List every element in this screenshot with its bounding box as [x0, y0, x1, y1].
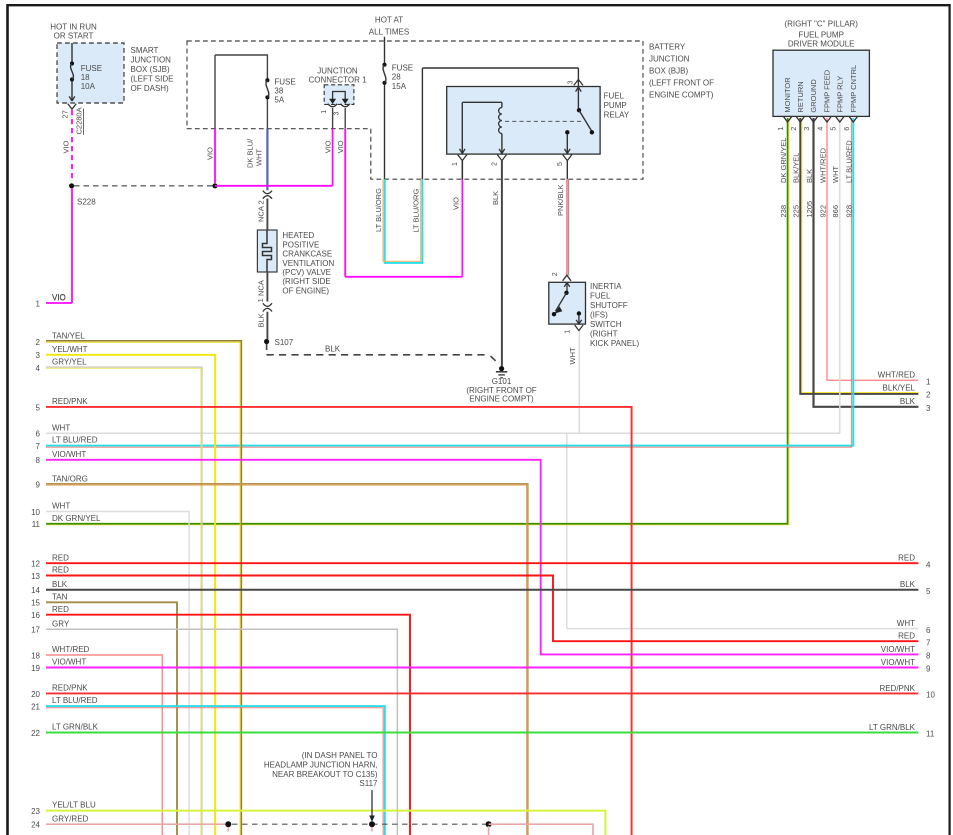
svg-text:BLK: BLK	[805, 169, 814, 183]
svg-text:YEL/LT BLU: YEL/LT BLU	[52, 801, 96, 810]
svg-text:10: 10	[926, 691, 935, 700]
svg-text:VIO/WHT: VIO/WHT	[881, 645, 915, 654]
svg-text:LT BLU/ORG: LT BLU/ORG	[374, 188, 383, 232]
svg-text:1: 1	[452, 162, 459, 166]
svg-text:15A: 15A	[392, 82, 407, 91]
svg-text:BLK: BLK	[900, 397, 916, 406]
svg-text:BLK/YEL: BLK/YEL	[792, 153, 801, 183]
svg-text:12: 12	[31, 560, 40, 569]
svg-text:5: 5	[926, 587, 931, 596]
svg-text:LT BLU/RED: LT BLU/RED	[52, 436, 98, 445]
svg-text:3: 3	[36, 351, 41, 360]
svg-text:1: 1	[36, 299, 41, 308]
svg-text:ENGINE COMPT): ENGINE COMPT)	[469, 395, 534, 404]
svg-text:1: 1	[926, 378, 931, 387]
svg-text:3: 3	[334, 112, 341, 116]
svg-text:VIO: VIO	[336, 140, 345, 153]
svg-text:LT BLU/RED: LT BLU/RED	[52, 696, 98, 705]
svg-text:BOX (SJB): BOX (SJB)	[131, 65, 170, 74]
svg-text:WHT/RED: WHT/RED	[52, 645, 90, 654]
svg-text:TAN: TAN	[52, 592, 68, 601]
svg-text:6: 6	[844, 127, 851, 131]
svg-text:FPMP RLY: FPMP RLY	[835, 76, 844, 113]
svg-text:6: 6	[36, 430, 41, 439]
svg-text:WHT: WHT	[897, 619, 915, 628]
svg-text:VIO: VIO	[452, 197, 461, 210]
svg-text:3: 3	[926, 404, 931, 413]
svg-text:(RIGHT FRONT OF: (RIGHT FRONT OF	[466, 386, 536, 395]
svg-text:238: 238	[779, 205, 788, 218]
svg-text:(RIGHT: (RIGHT	[590, 330, 618, 339]
svg-text:5: 5	[830, 127, 837, 131]
svg-text:SMART: SMART	[131, 46, 159, 55]
svg-text:POSITIVE: POSITIVE	[282, 240, 319, 249]
svg-text:PNK/BLK: PNK/BLK	[556, 184, 565, 216]
svg-text:(RIGHT "C" PILLAR): (RIGHT "C" PILLAR)	[784, 19, 858, 28]
svg-text:WHT: WHT	[831, 166, 840, 183]
svg-text:BLK: BLK	[325, 345, 341, 354]
svg-text:YEL/WHT: YEL/WHT	[52, 345, 88, 354]
svg-text:INERTIA: INERTIA	[590, 282, 622, 291]
svg-text:1: 1	[778, 127, 785, 131]
svg-text:27: 27	[61, 110, 70, 118]
svg-text:VIO/WHT: VIO/WHT	[881, 658, 915, 667]
svg-text:225: 225	[792, 205, 801, 218]
svg-text:OF ENGINE): OF ENGINE)	[282, 286, 329, 295]
svg-text:1: 1	[564, 330, 571, 334]
svg-text:HEADLAMP JUNCTION HARN,: HEADLAMP JUNCTION HARN,	[264, 761, 378, 770]
svg-text:FUEL: FUEL	[604, 92, 625, 101]
svg-text:DK BLU/: DK BLU/	[246, 138, 255, 168]
svg-text:5A: 5A	[274, 96, 284, 105]
svg-text:DRIVER MODULE: DRIVER MODULE	[788, 39, 855, 48]
svg-text:(RIGHT SIDE: (RIGHT SIDE	[282, 277, 330, 286]
svg-text:WHT: WHT	[568, 347, 577, 364]
svg-text:FUSE: FUSE	[274, 77, 295, 86]
svg-text:4: 4	[818, 127, 825, 131]
svg-text:BLK/YEL: BLK/YEL	[883, 384, 916, 393]
svg-text:OF DASH): OF DASH)	[131, 84, 170, 93]
svg-text:2: 2	[926, 390, 931, 399]
svg-text:NCA: NCA	[257, 280, 266, 296]
svg-text:CONNECTOR 1: CONNECTOR 1	[308, 76, 367, 85]
svg-text:RETURN: RETURN	[796, 81, 805, 112]
svg-text:5: 5	[557, 162, 564, 166]
svg-text:FPMP CNTRL: FPMP CNTRL	[849, 65, 858, 113]
svg-text:38: 38	[274, 87, 283, 96]
svg-text:8: 8	[36, 456, 41, 465]
svg-text:BOX (BJB): BOX (BJB)	[649, 66, 688, 75]
svg-text:FPMP FEED: FPMP FEED	[823, 69, 832, 112]
svg-text:5: 5	[36, 403, 41, 412]
svg-text:922: 922	[818, 205, 827, 218]
svg-text:(LEFT SIDE: (LEFT SIDE	[131, 74, 174, 83]
svg-text:3: 3	[804, 127, 811, 131]
svg-text:HEATED: HEATED	[282, 231, 314, 240]
svg-text:NEAR BREAKOUT TO C135): NEAR BREAKOUT TO C135)	[272, 770, 378, 779]
svg-text:JUNCTION: JUNCTION	[131, 55, 172, 64]
svg-text:GROUND: GROUND	[809, 79, 818, 113]
svg-text:11: 11	[926, 730, 935, 739]
svg-text:S228: S228	[77, 197, 96, 206]
svg-text:GRY/YEL: GRY/YEL	[52, 358, 87, 367]
svg-text:13: 13	[31, 572, 40, 581]
svg-text:1: 1	[258, 298, 265, 302]
svg-text:VIO/WHT: VIO/WHT	[52, 450, 86, 459]
svg-text:6: 6	[926, 626, 931, 635]
svg-text:7: 7	[36, 442, 41, 451]
svg-text:2: 2	[552, 272, 559, 276]
svg-text:24: 24	[31, 821, 40, 830]
svg-text:LT BLU/ORG: LT BLU/ORG	[412, 189, 421, 233]
svg-text:RED: RED	[898, 554, 915, 563]
svg-text:VIO/WHT: VIO/WHT	[52, 658, 86, 667]
svg-text:22: 22	[31, 729, 40, 738]
svg-text:WHT/RED: WHT/RED	[818, 147, 827, 183]
svg-text:23: 23	[31, 807, 40, 816]
svg-text:10: 10	[31, 508, 40, 517]
svg-text:4: 4	[926, 560, 931, 569]
svg-text:2: 2	[791, 127, 798, 131]
svg-text:RED/PNK: RED/PNK	[52, 684, 88, 693]
svg-text:VENTILATION: VENTILATION	[282, 259, 334, 268]
svg-text:9: 9	[926, 665, 931, 674]
svg-text:FUSE: FUSE	[392, 64, 413, 73]
svg-text:LT GRN/BLK: LT GRN/BLK	[869, 723, 916, 732]
svg-text:OR START: OR START	[54, 32, 94, 41]
svg-text:(IN DASH PANEL TO: (IN DASH PANEL TO	[302, 751, 378, 760]
svg-text:28: 28	[392, 73, 401, 82]
svg-text:CRANKCASE: CRANKCASE	[282, 250, 332, 259]
svg-text:LT GRN/BLK: LT GRN/BLK	[52, 723, 99, 732]
svg-text:BLK: BLK	[52, 580, 68, 589]
svg-text:928: 928	[845, 205, 854, 218]
svg-text:2: 2	[491, 162, 498, 166]
svg-text:16: 16	[31, 611, 40, 620]
svg-text:BLK: BLK	[257, 313, 266, 327]
svg-text:18: 18	[31, 651, 40, 660]
svg-text:11: 11	[32, 520, 41, 529]
svg-text:NCA 2: NCA 2	[257, 200, 266, 222]
svg-text:SWITCH: SWITCH	[590, 320, 622, 329]
svg-text:GRY/RED: GRY/RED	[52, 814, 89, 823]
svg-text:19: 19	[31, 664, 40, 673]
svg-text:BATTERY: BATTERY	[649, 42, 686, 51]
svg-text:FUEL PUMP: FUEL PUMP	[798, 30, 844, 39]
svg-text:RELAY: RELAY	[604, 111, 630, 120]
svg-text:10A: 10A	[81, 82, 96, 91]
svg-text:DK GRN/YEL: DK GRN/YEL	[779, 138, 788, 183]
svg-text:PUMP: PUMP	[604, 101, 627, 110]
svg-text:TAN/YEL: TAN/YEL	[52, 332, 85, 341]
svg-text:RED/PNK: RED/PNK	[52, 397, 88, 406]
svg-text:WHT/RED: WHT/RED	[878, 371, 916, 380]
svg-text:RED: RED	[898, 632, 915, 641]
svg-text:4: 4	[36, 364, 41, 373]
svg-text:8: 8	[926, 652, 931, 661]
svg-text:FUEL: FUEL	[590, 292, 611, 301]
svg-text:HOT IN RUN: HOT IN RUN	[50, 23, 97, 32]
svg-text:VIO: VIO	[206, 147, 215, 160]
svg-text:BLK: BLK	[491, 191, 500, 205]
svg-text:HOT AT: HOT AT	[375, 16, 403, 25]
svg-text:KICK PANEL): KICK PANEL)	[590, 339, 640, 348]
svg-text:(LEFT FRONT OF: (LEFT FRONT OF	[649, 78, 714, 87]
svg-text:MONITOR: MONITOR	[783, 77, 792, 113]
svg-text:(IFS): (IFS)	[590, 311, 608, 320]
svg-text:WHT: WHT	[52, 502, 70, 511]
svg-text:FUSE: FUSE	[81, 64, 102, 73]
svg-text:G101: G101	[492, 377, 512, 386]
svg-text:JUNCTION: JUNCTION	[649, 54, 690, 63]
svg-text:S107: S107	[275, 338, 294, 347]
svg-text:14: 14	[31, 586, 40, 595]
svg-text:S117: S117	[359, 779, 378, 788]
svg-text:3: 3	[568, 81, 575, 85]
svg-text:LT BLU/RED: LT BLU/RED	[845, 140, 854, 183]
svg-text:VIO: VIO	[52, 293, 66, 302]
svg-text:BLK: BLK	[900, 580, 916, 589]
svg-text:15: 15	[31, 599, 40, 608]
svg-text:18: 18	[81, 73, 90, 82]
svg-text:SHUTOFF: SHUTOFF	[590, 301, 628, 310]
svg-text:JUNCTION: JUNCTION	[317, 66, 358, 75]
svg-text:VIO: VIO	[62, 140, 71, 153]
svg-text:RED: RED	[52, 553, 69, 562]
svg-text:9: 9	[36, 481, 41, 490]
svg-text:C2280A: C2280A	[75, 107, 84, 134]
svg-text:DK GRN/YEL: DK GRN/YEL	[52, 514, 101, 523]
svg-text:866: 866	[831, 205, 840, 218]
svg-text:WHT: WHT	[52, 423, 70, 432]
svg-text:2: 2	[36, 338, 41, 347]
svg-text:(PCV) VALVE: (PCV) VALVE	[282, 268, 331, 277]
svg-text:1: 1	[321, 110, 328, 114]
svg-text:VIO: VIO	[324, 140, 333, 153]
svg-text:TAN/ORG: TAN/ORG	[52, 474, 88, 483]
svg-text:RED/PNK: RED/PNK	[879, 684, 915, 693]
svg-text:21: 21	[31, 703, 40, 712]
svg-text:17: 17	[31, 626, 40, 635]
svg-text:ENGINE COMPT): ENGINE COMPT)	[649, 90, 714, 99]
svg-text:WHT: WHT	[255, 149, 264, 166]
svg-text:RED: RED	[52, 566, 69, 575]
svg-text:20: 20	[31, 690, 40, 699]
svg-text:ALL TIMES: ALL TIMES	[369, 28, 409, 37]
svg-text:RED: RED	[52, 605, 69, 614]
svg-text:GRY: GRY	[52, 619, 70, 628]
svg-text:1205: 1205	[805, 201, 814, 218]
svg-text:7: 7	[926, 638, 931, 647]
